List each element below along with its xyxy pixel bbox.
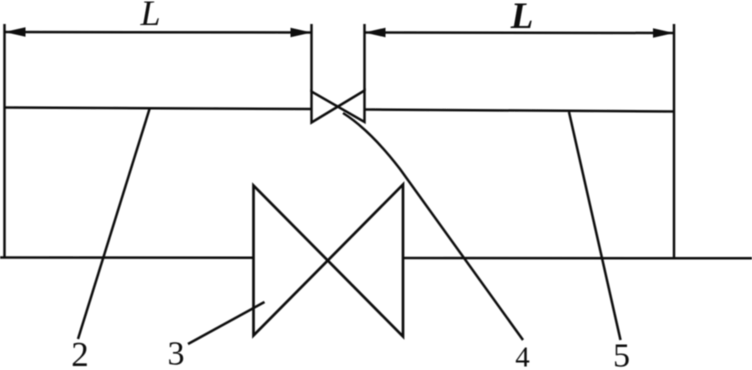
svg-text:5: 5 xyxy=(613,338,630,370)
svg-text:L: L xyxy=(139,0,160,33)
svg-text:3: 3 xyxy=(168,336,185,370)
svg-text:L: L xyxy=(510,0,534,37)
svg-text:4: 4 xyxy=(515,342,530,370)
svg-text:2: 2 xyxy=(71,335,89,370)
